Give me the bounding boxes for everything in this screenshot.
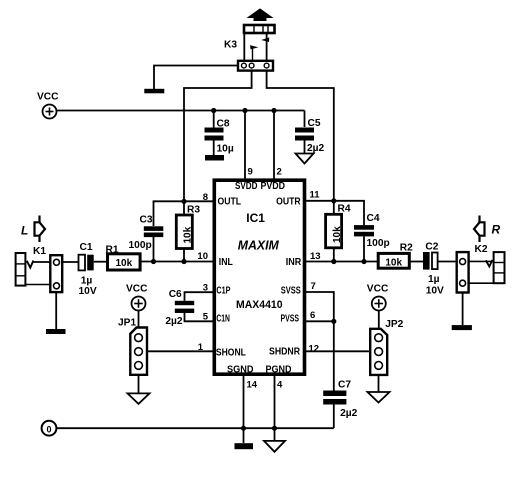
node PGND/rail bbox=[272, 426, 277, 431]
ground triangle below JP2 bbox=[368, 392, 390, 403]
svg-text:SHONL: SHONL bbox=[216, 346, 246, 358]
svg-text:C8: C8 bbox=[217, 119, 230, 130]
input arrow L bbox=[35, 216, 46, 243]
wire SVSS/PVSS down to C7 bbox=[333, 321, 335, 390]
wire K3 sleeve to ground bbox=[154, 66, 238, 90]
svg-text:VCC: VCC bbox=[367, 284, 389, 295]
svg-text:K2: K2 bbox=[475, 244, 488, 255]
svg-text:R4: R4 bbox=[338, 204, 351, 215]
svg-text:1µ: 1µ bbox=[428, 274, 440, 285]
wire R4 top lead bbox=[333, 201, 335, 215]
wire K3 right pin to OUTR node bbox=[267, 71, 334, 201]
wire pin5 C1N stub bbox=[185, 313, 213, 321]
wire JP1 to ground bbox=[138, 375, 140, 393]
svg-text:14: 14 bbox=[247, 380, 258, 391]
svg-text:PVDD: PVDD bbox=[261, 180, 286, 192]
wire R3 bottom lead bbox=[183, 249, 185, 262]
node SGND/rail bbox=[241, 426, 246, 431]
svg-text:IC1: IC1 bbox=[246, 211, 265, 225]
svg-text:C6: C6 bbox=[169, 289, 182, 300]
node INR/R4 bbox=[331, 259, 336, 264]
svg-text:4: 4 bbox=[277, 380, 283, 391]
wire pin1 SHONL to JP1 bbox=[146, 350, 213, 352]
wire VCC to JP2 bbox=[378, 311, 380, 329]
node pin2/VCC bbox=[271, 108, 276, 113]
svg-text:L: L bbox=[21, 224, 28, 238]
K3 plug body bbox=[244, 25, 275, 33]
VCC terminal above JP2 bbox=[367, 284, 389, 311]
svg-text:C1P: C1P bbox=[216, 285, 230, 297]
node junction dots bbox=[151, 108, 367, 431]
svg-text:5: 5 bbox=[203, 312, 209, 323]
wire K3 left pin to OUTL node bbox=[184, 71, 252, 202]
svg-text:2µ2: 2µ2 bbox=[307, 143, 325, 154]
wire C2 to K2 bbox=[437, 261, 458, 263]
svg-text:SGND: SGND bbox=[227, 363, 254, 375]
node pin9/VCC bbox=[242, 108, 247, 113]
svg-text:C2: C2 bbox=[425, 241, 438, 252]
capacitor C2 polarized bbox=[423, 241, 444, 296]
svg-text:PGND: PGND bbox=[266, 363, 292, 375]
svg-text:2: 2 bbox=[277, 167, 282, 178]
wire C4 lower lead bbox=[363, 237, 365, 262]
resistor R2 bbox=[378, 243, 413, 269]
svg-text:1: 1 bbox=[198, 342, 204, 353]
capacitor C4 bbox=[354, 213, 390, 249]
svg-text:INR: INR bbox=[286, 256, 302, 268]
wire K1 to C1 bbox=[33, 261, 79, 263]
svg-text:R2: R2 bbox=[400, 243, 413, 254]
OUTL pin8 stub bbox=[213, 200, 215, 202]
node C8/VCC bbox=[211, 108, 216, 113]
resistor R4 bbox=[326, 204, 351, 248]
svg-text:OUTL: OUTL bbox=[218, 195, 242, 207]
svg-text:100p: 100p bbox=[129, 240, 152, 251]
VCC supply terminal top-left bbox=[37, 92, 59, 119]
svg-text:K1: K1 bbox=[33, 246, 46, 257]
svg-text:10k: 10k bbox=[115, 258, 132, 269]
svg-text:7: 7 bbox=[311, 281, 316, 292]
svg-text:C7: C7 bbox=[338, 380, 351, 391]
connector K3 socket bbox=[238, 61, 273, 71]
svg-text:R: R bbox=[492, 223, 501, 237]
terminal 0V bottom-left bbox=[42, 421, 57, 436]
svg-text:R3: R3 bbox=[187, 205, 200, 216]
wire pin3 C1P stub bbox=[185, 292, 213, 301]
svg-text:0: 0 bbox=[46, 424, 51, 434]
svg-text:C3: C3 bbox=[140, 215, 153, 226]
svg-text:INL: INL bbox=[219, 256, 233, 268]
svg-text:6: 6 bbox=[310, 310, 315, 321]
ground bar SGND bbox=[235, 443, 254, 449]
svg-text:C4: C4 bbox=[367, 213, 380, 224]
wire C5 lower lead bbox=[304, 141, 306, 154]
node INL/C3 bbox=[151, 259, 156, 264]
K3 switch contact arrows bbox=[250, 37, 269, 60]
wire JP2 to ground bbox=[378, 375, 380, 392]
wire pin7 SVSS bbox=[306, 292, 334, 321]
capacitor C3 bbox=[129, 215, 164, 252]
svg-text:13: 13 bbox=[310, 251, 321, 262]
svg-text:C1: C1 bbox=[80, 242, 93, 253]
IC pin number labels bbox=[197, 167, 320, 391]
wire K3 plug line left bbox=[243, 34, 245, 61]
ground bar near K3 bbox=[144, 89, 164, 94]
svg-text:SVDD: SVDD bbox=[235, 180, 258, 192]
ground bar below C8 bbox=[205, 155, 224, 161]
wire K2 down to ground bbox=[462, 293, 464, 326]
capacitor C8 bbox=[205, 119, 234, 155]
wire PGND stub to triangle bbox=[274, 428, 276, 441]
wire C3 lower lead bbox=[153, 237, 155, 262]
ground triangle below JP1 bbox=[128, 393, 150, 404]
wire INR line bbox=[306, 261, 378, 263]
wire R2 to C2 bbox=[409, 261, 423, 263]
capacitor C6 bbox=[165, 289, 194, 327]
node PVSS/C7 bbox=[331, 319, 336, 324]
svg-text:10k: 10k bbox=[183, 226, 194, 243]
wire pin6 PVSS bbox=[306, 320, 334, 322]
svg-text:MAXIM: MAXIM bbox=[238, 239, 280, 253]
jumper JP2 bbox=[370, 319, 403, 375]
svg-text:VCC: VCC bbox=[126, 284, 148, 295]
svg-text:SVSS: SVSS bbox=[281, 285, 301, 297]
resistor R3 bbox=[176, 205, 200, 249]
svg-text:10V: 10V bbox=[79, 286, 97, 297]
wire pin2 PVDD bbox=[273, 111, 275, 179]
VCC terminal above JP1 bbox=[126, 284, 148, 311]
capacitor C5 bbox=[295, 118, 325, 154]
ground bar below K2 bbox=[452, 325, 472, 330]
wire C1 to R1 bbox=[94, 261, 108, 263]
resistor R1 bbox=[106, 245, 141, 271]
wire K3 plug line right bbox=[266, 34, 268, 61]
connector K2 bbox=[457, 244, 505, 293]
svg-text:10k: 10k bbox=[385, 258, 402, 269]
wire SGND stub to bar bbox=[243, 428, 245, 443]
output arrow R bbox=[474, 216, 485, 243]
svg-text:SHDNR: SHDNR bbox=[269, 346, 300, 358]
svg-text:PVSS: PVSS bbox=[281, 313, 300, 325]
wire pin12 SHDNR to JP2 bbox=[306, 350, 370, 352]
svg-text:10µ: 10µ bbox=[217, 144, 234, 155]
wire bottom 0V rail bbox=[57, 427, 334, 429]
wire K1 down to ground bbox=[55, 292, 57, 329]
svg-text:10V: 10V bbox=[426, 286, 444, 297]
svg-text:K3: K3 bbox=[224, 40, 237, 51]
op-amp IC1 MAX4410 body bbox=[214, 180, 304, 375]
wire C8 lead bbox=[213, 111, 215, 128]
node OUTR/R4 bbox=[331, 198, 336, 203]
svg-text:10: 10 bbox=[197, 251, 208, 262]
wire OUTR stub bbox=[306, 201, 364, 225]
wire pin9 SVDD bbox=[244, 111, 246, 179]
ground bar below K1 bbox=[46, 329, 66, 334]
wire INL line bbox=[141, 261, 213, 263]
node INL/R3 bbox=[181, 259, 186, 264]
node OUTL/R3 bbox=[181, 199, 186, 204]
svg-text:C1N: C1N bbox=[216, 313, 230, 325]
svg-text:VCC: VCC bbox=[37, 92, 59, 103]
svg-text:12: 12 bbox=[309, 344, 320, 355]
ground triangle below C5 bbox=[296, 154, 314, 164]
wire VCC to JP1 bbox=[138, 311, 140, 328]
svg-text:8: 8 bbox=[203, 192, 208, 203]
svg-text:R1: R1 bbox=[106, 245, 119, 256]
svg-text:3: 3 bbox=[203, 283, 208, 294]
svg-text:OUTR: OUTR bbox=[276, 195, 301, 207]
wire R4 bottom lead bbox=[333, 248, 335, 262]
svg-text:11: 11 bbox=[310, 190, 321, 201]
svg-text:9: 9 bbox=[248, 167, 253, 178]
svg-text:C5: C5 bbox=[308, 118, 321, 129]
svg-text:10k: 10k bbox=[332, 226, 343, 243]
wire C5 lead from rail bbox=[304, 111, 306, 128]
svg-text:JP1: JP1 bbox=[118, 317, 136, 328]
capacitor C7 bbox=[323, 380, 357, 419]
wire OUTL stub bbox=[154, 201, 213, 226]
wire pin4 PGND down bbox=[274, 376, 276, 428]
capacitor C1 polarized bbox=[79, 242, 97, 297]
connector K1 bbox=[16, 246, 63, 292]
node INR/C4 bbox=[361, 259, 366, 264]
svg-text:100p: 100p bbox=[367, 238, 390, 249]
jumper JP1 bbox=[118, 317, 147, 374]
svg-text:1µ: 1µ bbox=[81, 275, 93, 286]
headphone plug arrow K3 bbox=[248, 9, 272, 21]
ground triangle PGND bbox=[264, 441, 285, 452]
wire R3 top lead bbox=[183, 201, 185, 215]
wire C7 bottom lead bbox=[333, 405, 335, 429]
svg-text:2µ2: 2µ2 bbox=[340, 408, 358, 419]
svg-text:MAX4410: MAX4410 bbox=[236, 299, 283, 311]
wire VCC rail bbox=[57, 110, 305, 112]
wire pin14 SGND down bbox=[243, 376, 245, 428]
svg-text:2µ2: 2µ2 bbox=[165, 316, 183, 327]
svg-text:JP2: JP2 bbox=[385, 319, 403, 330]
